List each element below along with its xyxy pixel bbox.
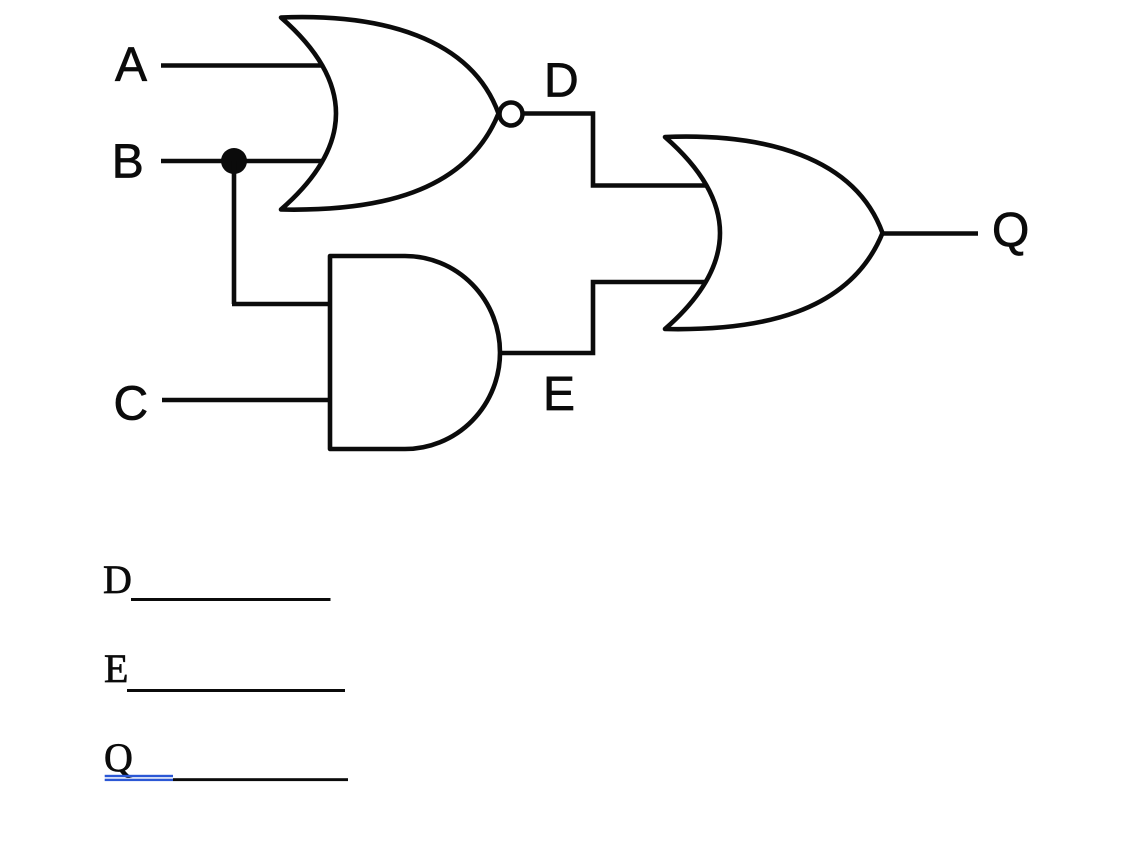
answer blank Q blue underline lower — [105, 779, 173, 781]
answer blank Q blue underline upper — [105, 775, 173, 777]
wire Q output — [882, 231, 978, 236]
AND gate U2 body — [330, 256, 500, 449]
svg-text:C: C — [114, 377, 149, 430]
svg-text:D: D — [103, 557, 132, 602]
wire A input — [161, 63, 330, 68]
wire E: AND output to OR input (step) — [498, 282, 715, 353]
wire D: NOR output to OR input (step) — [523, 114, 715, 186]
answer blank line E — [127, 689, 345, 692]
node B junction dot — [221, 148, 247, 174]
NOR gate U1 body — [281, 17, 499, 210]
answer blank line Q — [173, 778, 348, 781]
wire B branch horizontal to AND — [232, 302, 336, 307]
svg-text:Q: Q — [992, 204, 1029, 257]
wire C input — [162, 398, 336, 403]
svg-text:Q: Q — [104, 735, 133, 780]
wire B branch vertical — [232, 161, 237, 304]
answer blank line D — [131, 598, 331, 601]
svg-text:B: B — [112, 135, 144, 188]
svg-text:A: A — [115, 39, 147, 92]
NOR gate output bubble — [500, 103, 523, 126]
svg-text:D: D — [544, 54, 579, 107]
wire B input — [161, 159, 330, 164]
OR gate U3 body — [665, 137, 883, 330]
svg-text:E: E — [543, 368, 575, 421]
svg-text:E: E — [104, 646, 128, 691]
